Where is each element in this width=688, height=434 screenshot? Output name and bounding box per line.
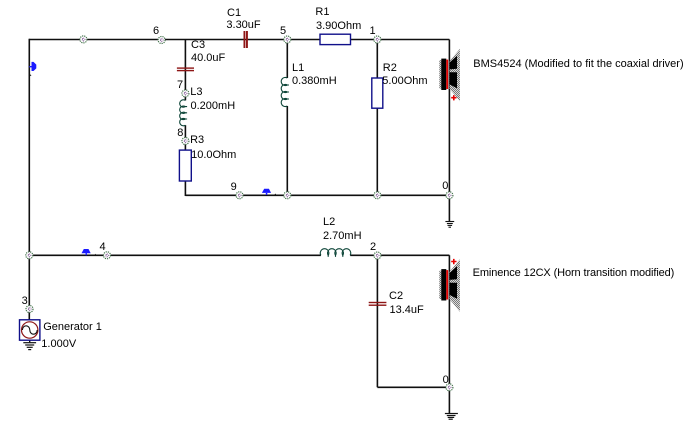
node 8: [182, 138, 189, 145]
inductor L3 0.200mH: [180, 100, 187, 126]
label R3 value: [191, 149, 236, 162]
label C2 value: [390, 304, 424, 317]
label node 6: [153, 25, 159, 38]
label node 8: [177, 127, 183, 140]
ground symbol at node 0 top: [445, 222, 454, 228]
label L3: [190, 86, 202, 99]
label generator value: [41, 338, 76, 351]
capacitor C3 40.0uF: [177, 67, 194, 71]
ground symbol at node 0 bottom: [445, 414, 458, 420]
label L2 value: [323, 230, 362, 243]
wire C3 branch (top rail to L3, through C3 and node 7): [184, 40, 186, 101]
label L1 value: [292, 75, 337, 88]
label R2: [383, 62, 397, 75]
label R1: [315, 6, 329, 19]
speaker U2 Eminence 12CX icon: [439, 259, 460, 312]
node 9: [236, 192, 243, 199]
wire L1 branch lower: [286, 106, 288, 196]
node 6: [158, 37, 165, 44]
label node 7: [177, 79, 183, 92]
node 5: [284, 36, 291, 43]
capacitor C1 3.30uF: [244, 31, 248, 48]
label node 0 bottom: [443, 374, 449, 387]
wire top rail left of R1 (through C1): [29, 39, 320, 41]
label L1: [292, 62, 304, 75]
wire left vertical (source rail): [28, 39, 30, 320]
label node 4: [100, 241, 106, 254]
label node 9: [231, 181, 237, 194]
wire R2 branch lower: [376, 108, 378, 196]
label L2: [323, 216, 335, 229]
node 0 bottom: [446, 384, 453, 391]
label C3 value: [191, 52, 225, 65]
label generator name: [43, 321, 102, 334]
current arrow on source rail: [29, 62, 36, 76]
node 0 top: [446, 192, 453, 199]
node 1: [374, 36, 381, 43]
label C2: [389, 290, 403, 303]
label node 5: [280, 25, 286, 38]
wire top right segment (R1 to corner): [351, 39, 450, 41]
ground symbol below generator: [23, 340, 36, 349]
label R2 value: [382, 75, 427, 88]
node junction L1/bottom rail: [284, 192, 291, 199]
current arrow on LF rail: [82, 249, 97, 255]
wire bottom rail of HF section: [185, 194, 449, 196]
node 3: [26, 306, 33, 313]
node 7: [182, 90, 189, 97]
label R1 value: [316, 20, 361, 33]
wire R2 branch upper: [376, 40, 378, 79]
current arrow on HF bottom rail: [262, 189, 277, 195]
wire ground stub node 0 bottom: [448, 387, 450, 413]
resistor R3 10.0Ohm: [179, 150, 191, 181]
label C1: [227, 7, 241, 20]
generator G1 symbol: [20, 320, 40, 340]
wire ground stub node 0 top: [448, 195, 450, 221]
wire speaker 1 vertical: [448, 40, 450, 196]
label node 3: [22, 295, 28, 308]
label node 0 top: [442, 180, 448, 193]
resistor R1 3.90Ohm: [320, 34, 351, 44]
resistor R2 5.00Ohm: [372, 78, 383, 108]
speaker U1 BMS4524 icon: [439, 49, 460, 102]
label node 1: [370, 25, 376, 38]
node junction R2/bottom rail: [374, 192, 381, 199]
label L3 value: [191, 100, 236, 113]
wire R3 to bottom rail: [184, 181, 186, 196]
wire lower rail left (to L2): [29, 254, 321, 256]
capacitor C2 13.4uF: [369, 302, 387, 306]
node (unnamed) on top rail: [80, 36, 87, 43]
label speaker U1: [473, 58, 683, 71]
label node 2: [370, 241, 376, 254]
inductor L2 2.70mH: [320, 249, 350, 257]
wire bottom rail of LF section: [377, 386, 449, 388]
wire L1 branch upper: [286, 40, 288, 79]
wire C2 branch: [376, 255, 378, 387]
wire speaker 2 vertical: [448, 255, 450, 387]
label speaker U2: [473, 267, 675, 280]
label C3: [191, 39, 205, 52]
node junction source/LF rail: [26, 252, 33, 259]
node 2: [374, 252, 381, 259]
label C1 value: [226, 19, 260, 32]
node 4: [104, 252, 111, 259]
wire lower rail right (L2 to speaker 2): [350, 254, 449, 256]
label R3: [190, 134, 204, 147]
wire L3 to R3 (through node 8): [184, 125, 186, 150]
inductor L1 0.380mH: [281, 77, 289, 106]
